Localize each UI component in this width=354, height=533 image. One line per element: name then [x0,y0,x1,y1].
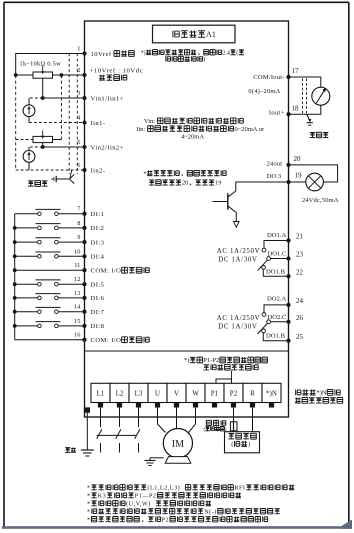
node bus junction 11 [13,268,17,272]
svg-text:DC 1A/30V: DC 1A/30V [218,323,257,330]
node bus junction 8 [13,226,17,230]
svg-text:17: 17 [292,67,300,75]
svg-text:V: V [174,389,179,397]
enclosure internal separator line [85,350,289,352]
terminal 26 dot [286,320,290,324]
dashed vertical pot2 feed [60,75,62,140]
svg-text:18: 18 [292,104,300,112]
potentiometer R2 [33,136,53,142]
shield drain symbol [56,178,69,180]
wire U to motor [158,408,166,433]
motor IM [163,429,192,458]
svg-text:15: 15 [74,318,80,325]
label 铠装线 left [28,181,47,187]
wire terminal20 loop [289,165,338,182]
node wiper junction [41,96,45,100]
shield dashed meter A [302,79,304,115]
terminal 3 dot and label [82,96,86,100]
terminal 10 dot and label [82,254,86,258]
svg-text:*)N: *)N [266,389,277,397]
svg-text:9: 9 [77,234,80,241]
svg-text:0~20mA or: 0~20mA or [234,126,265,133]
svg-text:DI:1: DI:1 [91,211,105,218]
title box 外壳规格A1 [153,25,236,43]
terminal 19 dot [286,180,290,184]
relay DO1 common C [271,258,289,260]
potentiometer R2 wiper arrow [42,131,44,137]
svg-text:IM: IM [172,439,184,450]
power terminal pad W [193,402,198,407]
potentiometer R1 1k-10k [33,72,53,78]
svg-text:12: 12 [74,276,80,283]
svg-text:AC 1A/250V: AC 1A/250V [217,315,260,322]
svg-text:L1: L1 [97,389,105,397]
analog meter M1 [312,87,330,105]
svg-text:DI:4: DI:4 [91,254,105,261]
wire terminal17 to meter [289,77,321,87]
terminal 8 dot and label [82,226,86,230]
svg-text:DI:5: DI:5 [91,281,105,288]
power terminal pad L1 [98,402,103,407]
shield dashed line A [68,54,70,175]
switch DI terminal 9 [15,241,38,243]
terminal 21 dot [286,238,290,242]
svg-text:23: 23 [296,251,304,259]
svg-text:24Vdc,50mA: 24Vdc,50mA [302,197,339,204]
svg-text:13: 13 [74,290,80,297]
svg-text:8: 8 [77,220,80,227]
svg-text:*)N: *)N [316,390,326,397]
power terminal pad L2 [117,402,122,407]
svg-text:0(4)–20mA: 0(4)–20mA [248,88,280,95]
terminal 22 dot [286,274,290,278]
svg-text:P1: P1 [211,389,219,397]
terminal 7 dot and label [82,212,86,216]
motor pedestal [165,457,191,464]
terminal 20 dot [286,163,290,167]
svg-text:DO2.A: DO2.A [267,296,286,303]
svg-text:(: ( [231,441,233,448]
terminal 17 dot [286,75,290,79]
label 接地 [65,447,76,452]
svg-text:DO1.A: DO1.A [267,232,286,239]
node bus junction 15 [13,324,17,328]
relay DO1 contact B [263,269,288,276]
svg-text:DI:6: DI:6 [91,295,105,302]
wire terminal3 Vin1 [43,97,85,99]
svg-text:26: 26 [296,314,304,322]
power terminal box U [148,383,167,402]
svg-text:1k~10kΩ 0.5w: 1k~10kΩ 0.5w [20,60,62,67]
svg-text:K3: K3 [98,492,107,499]
switch DI terminal 12 [15,283,38,285]
svg-text:DO2.C: DO2.C [268,314,287,321]
svg-text:R: R [250,389,255,397]
svg-text:P1-P2: P1-P2 [203,357,219,364]
svg-text:DO1.B: DO1.B [266,332,285,339]
node pot right junction [60,73,64,77]
shield dashed meter B [306,79,308,115]
power terminal pad R [250,402,255,407]
svg-text:14: 14 [74,304,81,311]
switch DI terminal 13 [15,297,38,299]
wire meter to terminal18 [289,105,321,114]
power terminal box W [186,383,205,402]
power terminal box *)N [262,383,281,402]
svg-text:Vin1/Iin1+: Vin1/Iin1+ [91,95,124,102]
svg-text:*: * [87,500,91,507]
svg-text:*: * [87,484,91,491]
svg-text:COM/Iout-: COM/Iout- [253,74,284,81]
fuse F1 [230,422,237,431]
label 熔断器 [206,420,226,425]
svg-text:24: 24 [296,297,304,305]
wire COM terminal 11 [15,269,85,271]
motor ground wire [150,457,164,459]
terminal 15 dot and label [82,324,86,328]
ground symbol PE [81,449,94,451]
node wiper2 junction [41,145,45,149]
lamp 24Vdc [306,173,324,191]
braking resistor box [225,432,260,453]
svg-text:19: 19 [295,171,303,179]
power terminal pad P1 [212,402,217,407]
power terminal box R [243,383,262,402]
wire terminal5 Vin2 [43,146,85,148]
svg-text:): ) [248,441,250,448]
switch DI terminal 8 [15,227,38,229]
P1-P2 jumper bar [216,379,232,383]
svg-text:(: ( [236,49,238,56]
wire terminal1 to pot [16,54,85,76]
svg-text:Iin1-: Iin1- [91,120,106,127]
svg-text:Iin2-: Iin2- [91,167,106,174]
power terminal pad U [155,402,160,407]
transistor Q1 [228,191,236,197]
terminal 14 dot and label [82,310,86,314]
ground symbol motor [145,460,156,462]
wire source2 to terminal6 dashed [28,162,30,170]
terminal 11 dot and label [82,268,86,272]
svg-text:DO1.B: DO1.B [266,268,285,275]
shield drain to ground [307,114,310,120]
PE ground wire [86,413,88,450]
wire W to motor [189,408,196,433]
power terminal box P2 [224,383,243,402]
wire P2 to fuse [233,408,235,432]
switch DI terminal 10 [15,255,38,257]
svg-text:DC 1A/30V: DC 1A/30V [218,256,257,263]
svg-text:10: 10 [74,248,80,255]
potentiometer R2 line [16,139,33,141]
svg-text:(U,V,W): (U,V,W) [126,500,151,507]
svg-text:+10Vref : 10Vdc: +10Vref : 10Vdc [90,68,144,75]
svg-text:2.4: 2.4 [222,50,230,56]
relay DO2 blade [258,324,268,335]
inverter enclosure outline [85,21,289,417]
svg-text:11: 11 [74,262,80,269]
svg-text:*): *) [141,49,146,56]
svg-text:*: * [87,508,91,515]
power terminal box L3 [129,383,148,402]
breaker pole L2 [119,408,121,428]
P1-P2 jumper pointer [231,371,233,380]
svg-text:N(-): N(-) [204,508,217,515]
svg-text:Iout+: Iout+ [269,109,285,116]
svg-text:24out: 24out [266,160,282,167]
terminal 12 dot and label [82,282,86,286]
svg-text:20: 20 [182,180,188,187]
wire source1 to terminal4 [28,117,30,123]
svg-text:*: * [87,492,91,499]
wire terminal19 to lamp [289,181,306,183]
svg-text:25: 25 [296,333,304,341]
terminal 13 dot and label [82,296,86,300]
svg-text:): ) [203,56,205,63]
relay DO1 contact A [264,241,289,249]
breaker pole L3 [138,408,140,428]
svg-text:DI:7: DI:7 [91,309,105,316]
svg-text:DI:3: DI:3 [91,239,105,246]
terminal 6 dot and label [82,168,86,172]
svg-text:(L1,L2,L3): (L1,L2,L3) [147,484,180,491]
svg-text:L3: L3 [135,389,143,397]
svg-text:19: 19 [215,180,221,187]
svg-text:Iin:: Iin: [136,126,145,133]
wire COM terminal 16 [15,339,85,341]
terminal 24 dot [286,303,290,307]
power terminal box L2 [110,383,129,402]
PE ground pad [85,407,90,412]
breaker linkage [97,434,137,436]
svg-text:DO1.C: DO1.C [268,251,287,258]
switch DI terminal 7 [15,213,38,215]
label 铠装线 right [310,132,329,137]
dashed option box left edge [15,75,17,170]
power terminal box V [167,383,186,402]
node bus junction 10 [13,254,17,258]
svg-text:COM: I/O: COM: I/O [91,267,122,274]
terminal 9 dot and label [82,240,86,244]
relay DO2 common C [271,321,289,323]
potentiometer R1 wiper arrow [42,66,44,72]
power terminal box P1 [205,383,224,402]
wire DO3 to transistor [236,182,289,191]
node bus junction 12 [13,282,17,286]
terminal 2 dot and label [82,73,86,77]
wire wiper2 to Vin2 [42,143,44,147]
svg-text:22: 22 [296,269,304,277]
wire R to resistor box [252,408,254,432]
terminal 16 dot and label [82,338,86,342]
svg-text:P2: P2 [230,389,238,397]
svg-text:DI:8: DI:8 [91,323,105,330]
terminal 1 dot and label [82,51,86,55]
switch DI terminal 14 [15,311,38,313]
node bus junction 13 [13,296,17,300]
terminal 5 dot and label [82,145,86,149]
power terminal box L1 [91,383,110,402]
power terminal pad L3 [136,402,141,407]
relay DO1 blade [258,260,268,271]
svg-text:*): *) [184,357,189,364]
wire dashed wiper to source1 [29,97,43,99]
DI bus [14,214,16,340]
power terminal pad *)N [269,402,274,407]
svg-text:20: 20 [294,155,302,163]
node bus junction 14 [13,310,17,314]
relay DO2 contact B [263,333,288,341]
svg-text:*: * [143,170,146,177]
breaker pole L1 [100,408,102,428]
svg-text:DO 3: DO 3 [267,173,282,180]
svg-text:RFI: RFI [234,484,245,491]
svg-text:21: 21 [296,233,304,241]
relay DO2 contact A [264,305,289,313]
svg-text:U: U [155,389,160,397]
terminal 18 dot [286,112,290,116]
svg-text:L2: L2 [116,389,124,397]
svg-text:W: W [192,389,199,397]
power terminal pad P2 [231,402,236,407]
svg-text:P1—P2: P1—P2 [135,492,157,499]
svg-text:Vin2/Iin2+: Vin2/Iin2+ [91,144,124,151]
switch DI terminal 15 [15,325,38,327]
shield dashed line B [76,54,78,175]
svg-text:10Vref: 10Vref [91,51,112,58]
svg-text:*: * [87,516,91,523]
current source I2 [28,147,30,151]
svg-text:4~20mA: 4~20mA [181,134,204,141]
terminal 23 dot [286,256,290,260]
svg-text:COM: I/O: COM: I/O [91,337,122,344]
svg-text:16: 16 [74,332,80,339]
svg-text:P2: P2 [162,516,170,523]
svg-text:A1: A1 [206,30,216,39]
node bus junction 9 [13,240,17,244]
terminal 25 dot [286,339,290,343]
power terminal pad V [174,402,179,407]
terminal 4 dot and label [82,120,86,124]
wire V to motor [176,408,178,429]
svg-text:1: 1 [77,46,80,53]
svg-text:DI:2: DI:2 [91,225,105,232]
svg-text:Vin:: Vin: [144,118,155,125]
node pot left junction [14,73,18,77]
wire wiper to Vin1 [42,78,44,98]
current source I1 [28,98,30,105]
wire pot line to terminal2 [16,74,85,76]
svg-text:AC 1A/250V: AC 1A/250V [217,248,260,255]
wire dashed wiper2 to source2 [29,146,43,148]
